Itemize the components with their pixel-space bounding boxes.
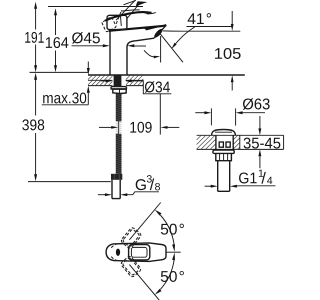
washer: [111, 87, 127, 89]
dimension D63: [195, 112, 205, 114]
aerator axis extension upper: [160, 36, 162, 63]
lever handle raised position: [102, 0, 147, 32]
dimension 35-45 vertical: [259, 116, 261, 168]
countertop deck cross-section: [88, 75, 245, 86]
label 50deg upper: [161, 224, 184, 235]
dimension D34 hole: [101, 80, 107, 82]
hose braid texture: [116, 94, 122, 174]
50deg ray upper: [129, 203, 160, 240]
drain cap: [212, 130, 236, 136]
threaded shank: [114, 75, 122, 86]
dimension 164: [55, 15, 57, 66]
dimension 191: [35, 9, 37, 66]
handle inner ring inner: [131, 247, 147, 257]
41 deg stream ray: [160, 34, 183, 63]
dashed handle rotated up 50: [111, 225, 142, 258]
dimension G3/8: [98, 194, 105, 196]
flexible hose upper: [116, 93, 122, 121]
extension line aerator axis: [159, 94, 161, 135]
G3/8 tube: [112, 180, 120, 199]
50deg arc upper: [160, 215, 174, 245]
drain body in deck: [216, 135, 233, 150]
aerator: [153, 28, 164, 39]
lever handle rest position: [105, 10, 156, 21]
hose end fitting: [111, 174, 122, 180]
lever cartridge cap: [107, 15, 127, 29]
label 105: [215, 48, 241, 59]
50deg arc lower: [160, 260, 174, 290]
extension line at deck left: [30, 71, 89, 73]
dimension 105 vertical: [231, 11, 233, 91]
drain flange: [213, 150, 234, 153]
dimension 109: [99, 126, 112, 128]
drain castellated nut: [216, 153, 232, 160]
dashed handle rotated down 50: [111, 246, 142, 279]
top view knob thick cap: [106, 244, 114, 261]
extension line top (164): [48, 6, 143, 8]
50deg ray lower: [129, 265, 159, 300]
dimension D45: [72, 45, 105, 47]
label 35-45: [244, 138, 281, 149]
handle inner ring outer: [129, 245, 150, 260]
label 41deg: [188, 13, 211, 24]
drain deck band: [197, 135, 284, 149]
dimension max.30 deck thickness: [87, 62, 89, 105]
handle axis centerline: [166, 251, 181, 253]
knob dark slot: [116, 249, 120, 256]
dimension 398: [35, 79, 37, 175]
mounting nut: [113, 89, 126, 94]
extension line hose end: [28, 181, 111, 183]
41 deg angle arc: [173, 27, 195, 48]
flexible hose lower: [116, 134, 122, 174]
label 50deg lower: [161, 271, 184, 282]
top view handle outline: [114, 243, 167, 262]
aerator level reference line with leader curl: [163, 30, 241, 32]
faucet body side view: [109, 25, 167, 75]
drain tailpipe: [218, 161, 230, 192]
drain lateral holes: [219, 142, 223, 147]
dimension G1 1/4: [205, 185, 212, 187]
curved leader to aerator axis: [144, 50, 156, 57]
41 deg horizontal reference line: [187, 26, 233, 28]
hose centerline in gap: [118, 120, 120, 136]
